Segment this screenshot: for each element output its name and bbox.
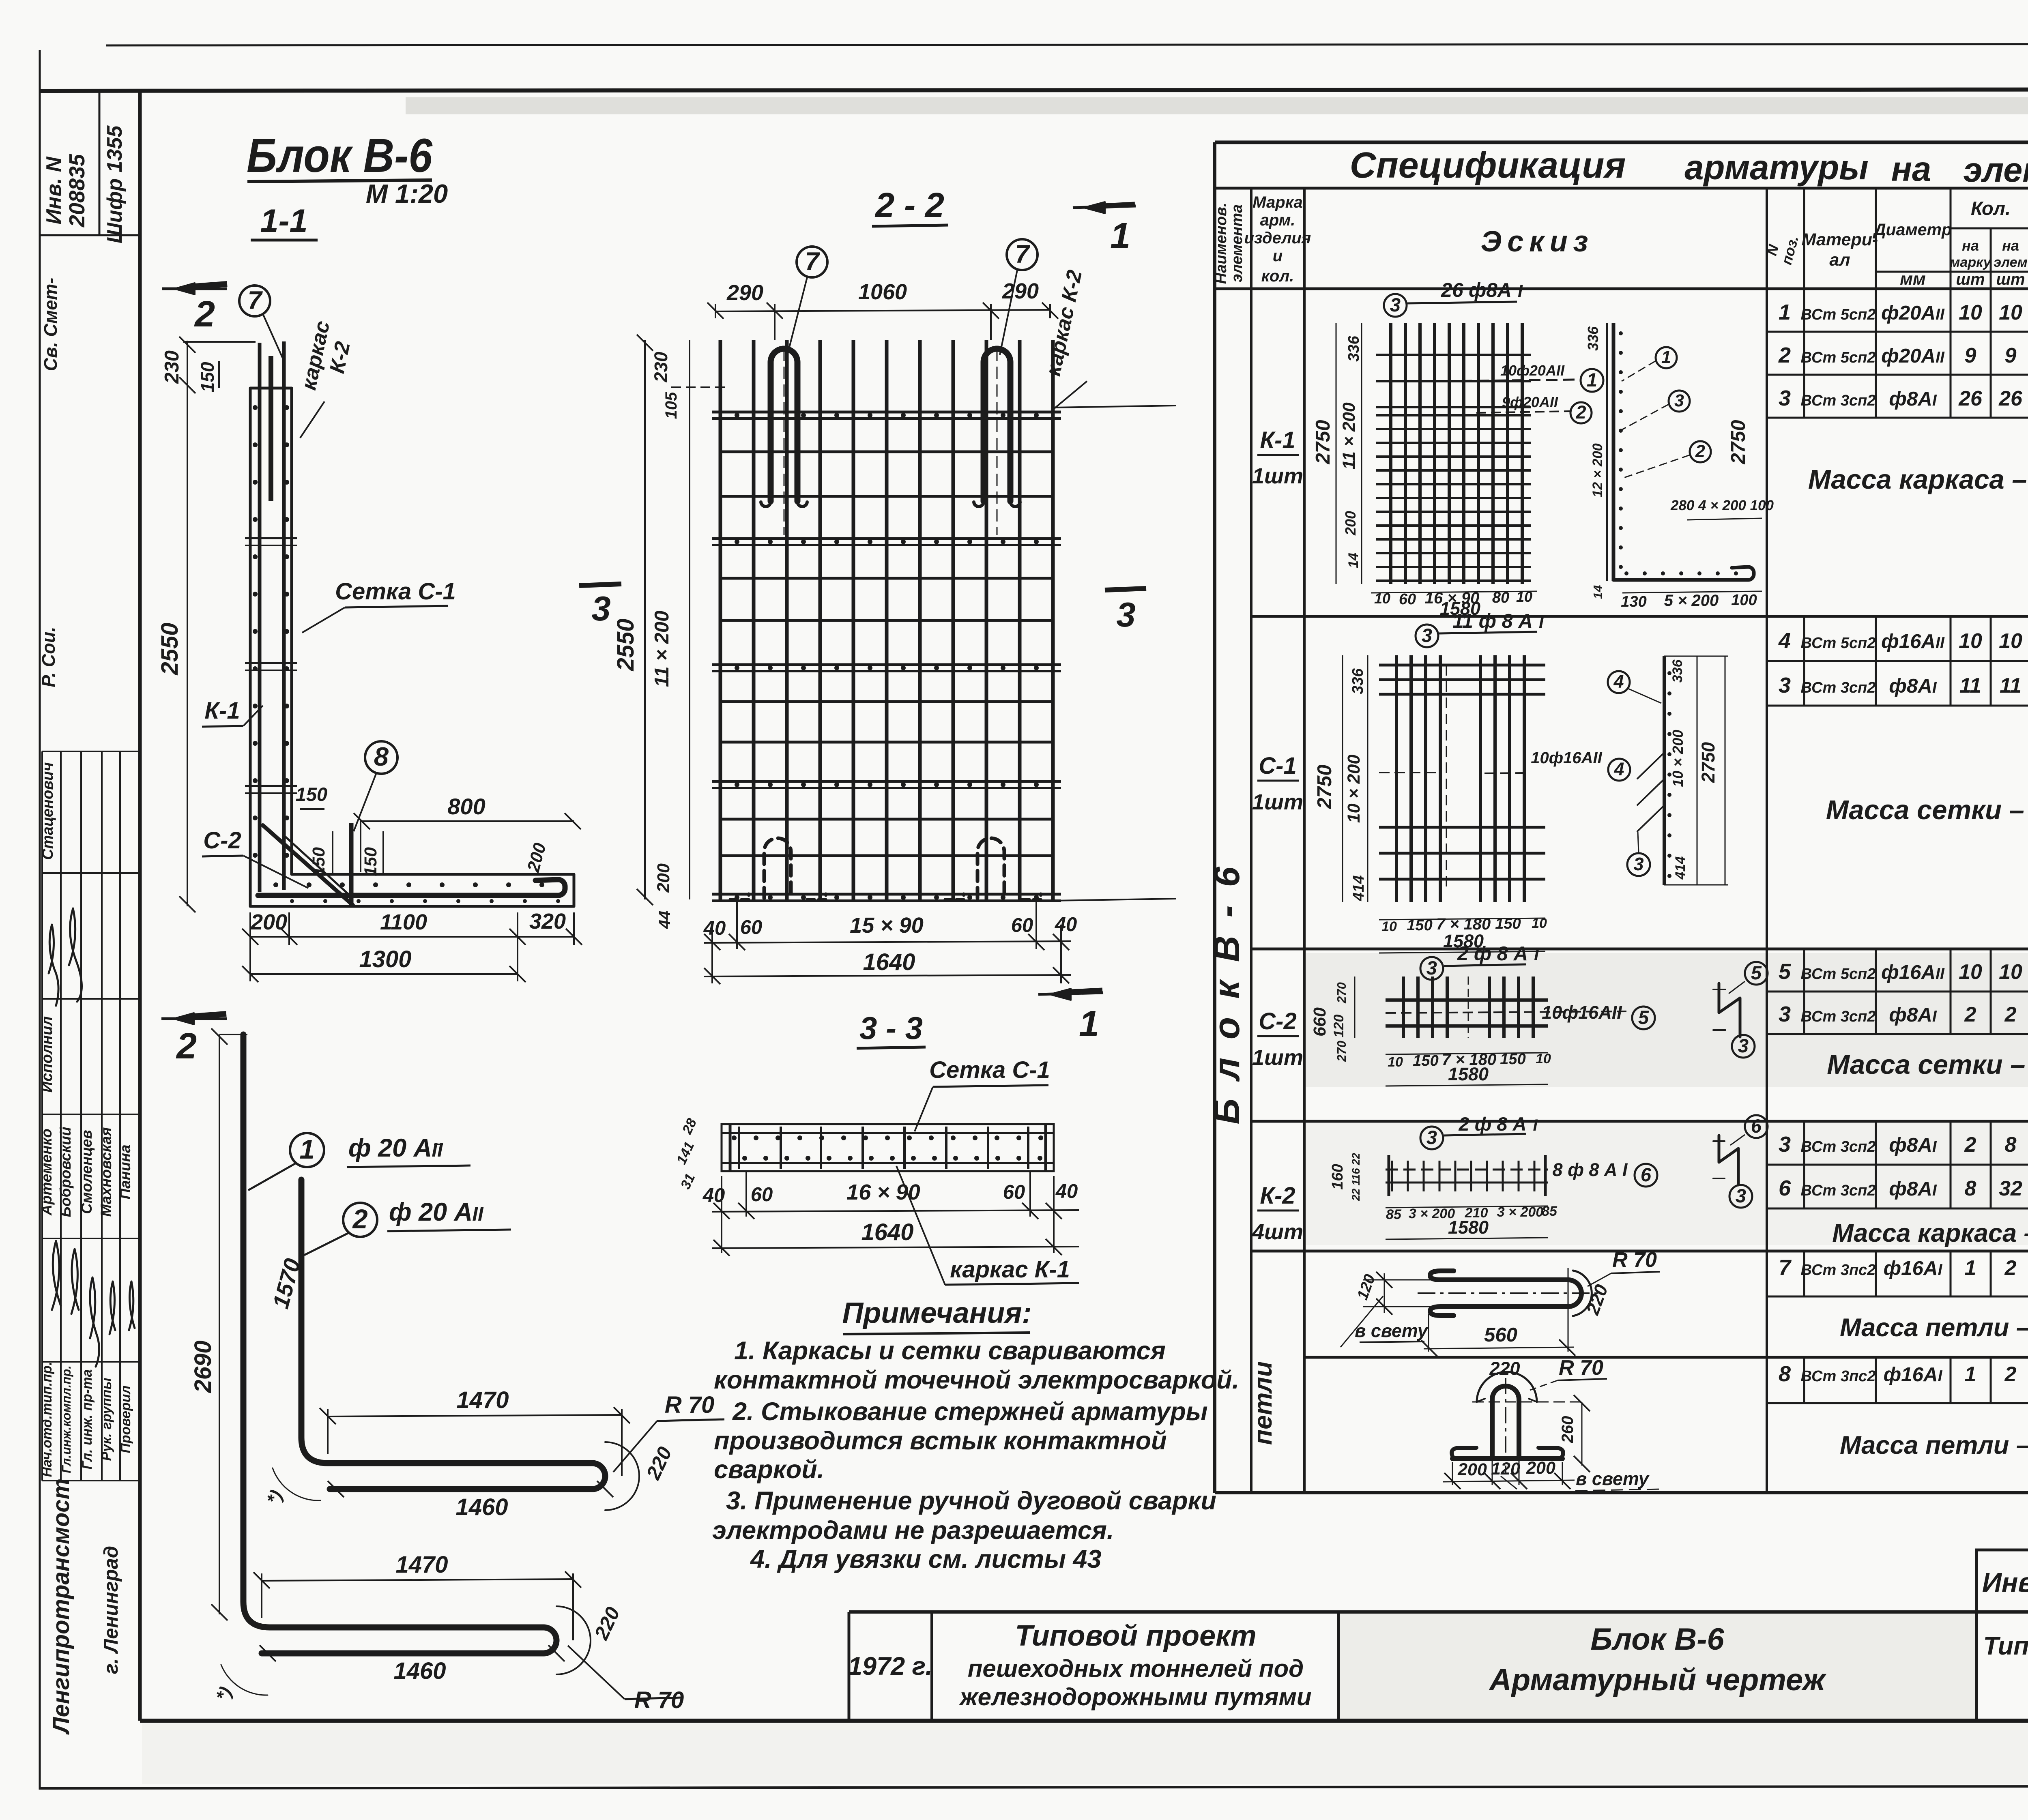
svg-text:1470: 1470 <box>456 1387 509 1413</box>
svg-text:290: 290 <box>726 281 763 305</box>
svg-text:150: 150 <box>1500 1051 1525 1068</box>
dim 1460 (bar2) <box>328 1481 344 1497</box>
sketch C-1 mesh <box>1395 655 1398 902</box>
svg-text:10: 10 <box>1532 916 1547 931</box>
svg-text:5: 5 <box>1751 962 1762 983</box>
svg-text:Махновская: Махновская <box>98 1127 114 1217</box>
svg-text:Спецификация: Спецификация <box>1350 145 1626 186</box>
svg-text:Масса сетки – 11,7 кг: Масса сетки – 11,7 кг <box>1827 1050 2028 1080</box>
svg-text:изделия: изделия <box>1244 229 1311 247</box>
svg-text:10ф16АII: 10ф16АII <box>1531 749 1602 767</box>
svg-text:Арматурный чертеж: Арматурный чертеж <box>1489 1663 1827 1697</box>
svg-text:1300: 1300 <box>359 946 411 972</box>
svg-text:150: 150 <box>361 847 380 876</box>
svg-text:контактной точечной электрос: контактной точечной электросваркой. <box>714 1366 1239 1394</box>
C-1 data rows grid <box>1767 660 2028 662</box>
svg-text:ВСт 5сп2: ВСт 5сп2 <box>1801 635 1876 652</box>
svg-text:11 × 200: 11 × 200 <box>651 611 673 687</box>
stamp box Inv N 208835 <box>40 234 140 236</box>
footing bottom bar with hook <box>258 880 565 895</box>
svg-text:40: 40 <box>1055 914 1077 936</box>
dim 1470 (bar1) <box>261 1573 262 1618</box>
svg-text:I: I <box>1534 945 1539 964</box>
title block outline <box>849 1610 2028 1614</box>
svg-text:3: 3 <box>1779 1002 1791 1026</box>
svg-text:Блок В-6: Блок В-6 <box>247 129 433 182</box>
svg-text:ф 20 А: ф 20 А <box>389 1198 473 1226</box>
inv number box <box>1976 1550 2028 1612</box>
svg-text:3: 3 <box>1422 625 1432 646</box>
svg-text:С-2: С-2 <box>1259 1008 1296 1034</box>
svg-text:40: 40 <box>703 917 726 939</box>
svg-text:6: 6 <box>1779 1176 1791 1200</box>
svg-text:электродами не разрешается.: электродами не разрешается. <box>712 1516 1114 1545</box>
svg-text:I: I <box>1539 612 1544 632</box>
svg-text:Шифр 1355: Шифр 1355 <box>103 125 127 244</box>
svg-text:ф16АII: ф16АII <box>1881 630 1945 652</box>
svg-text:3: 3 <box>1390 294 1401 315</box>
svg-text:2: 2 <box>194 294 215 335</box>
circled 8 (section 1-1) <box>365 741 397 774</box>
section mark 1 (top right) <box>1073 206 1136 208</box>
svg-text:5 × 200: 5 × 200 <box>1664 592 1719 610</box>
svg-text:2: 2 <box>1778 343 1791 367</box>
svg-text:8: 8 <box>2005 1133 2017 1157</box>
svg-text:ВСт 5сп2: ВСт 5сп2 <box>1801 306 1876 323</box>
bottom dim chain (2-2) <box>711 925 713 949</box>
svg-text:14: 14 <box>1591 585 1605 599</box>
svg-text:К-1: К-1 <box>1260 427 1295 453</box>
svg-text:1460: 1460 <box>455 1494 508 1520</box>
K-2 data rows grid <box>1767 1164 2028 1166</box>
svg-text:II: II <box>432 1139 443 1161</box>
section mark 1 (bottom, near 3-3) <box>1038 993 1103 994</box>
outer thin border top <box>106 44 2028 45</box>
svg-text:8: 8 <box>374 742 389 771</box>
svg-text:1580: 1580 <box>1448 1064 1489 1084</box>
svg-text:10: 10 <box>1959 301 1982 324</box>
svg-text:270: 270 <box>1334 1041 1349 1062</box>
svg-text:Панина: Панина <box>117 1144 133 1199</box>
svg-text:1580: 1580 <box>1448 1217 1489 1238</box>
svg-text:3 × 200: 3 × 200 <box>1497 1204 1543 1220</box>
svg-text:I: I <box>1518 281 1523 301</box>
circled 7 labels (2-2) <box>797 247 827 277</box>
svg-text:5: 5 <box>1638 1007 1649 1028</box>
svg-text:7: 7 <box>1015 240 1030 268</box>
svg-text:60: 60 <box>751 1184 773 1206</box>
svg-text:100: 100 <box>1731 592 1757 609</box>
svg-text:660: 660 <box>1310 1007 1330 1037</box>
svg-text:ф8АI: ф8АI <box>1889 1134 1937 1156</box>
svg-text:каркас К-1: каркас К-1 <box>950 1256 1070 1283</box>
K-1 sketch circled 2 + 9f20AII <box>1476 411 1570 413</box>
svg-text:1640: 1640 <box>861 1219 913 1245</box>
svg-text:элемент: элемент <box>1964 151 2028 189</box>
svg-text:ВСт 3сп2: ВСт 3сп2 <box>1801 1182 1876 1199</box>
signature scribbles <box>49 925 58 1006</box>
svg-text:10 × 200: 10 × 200 <box>1344 755 1364 823</box>
left dims (2-2) <box>689 340 690 899</box>
svg-text:80: 80 <box>1492 589 1509 606</box>
K-2 circled 3 + 2f8AI <box>1420 1127 1443 1149</box>
spec table outer grid <box>1215 141 2028 144</box>
svg-text:4: 4 <box>1613 759 1624 779</box>
loop2 260 dim <box>1581 1402 1583 1466</box>
svg-text:К-1: К-1 <box>204 698 240 724</box>
loop row 7 grid <box>1767 1296 2028 1298</box>
signature table grid <box>41 751 43 1481</box>
svg-text:1470: 1470 <box>395 1552 448 1578</box>
svg-text:336: 336 <box>1345 335 1362 361</box>
svg-text:К-2: К-2 <box>1260 1183 1295 1209</box>
svg-text:9: 9 <box>2005 344 2017 367</box>
svg-text:Стаценович: Стаценович <box>39 762 56 860</box>
C-2 Z-bar pictogram <box>1719 983 1740 1037</box>
top dim chain 290/1060/290 (2-2) <box>715 304 716 318</box>
svg-text:7: 7 <box>247 286 263 315</box>
svg-text:150: 150 <box>1413 1052 1438 1069</box>
svg-text:2: 2 <box>2004 1003 2017 1026</box>
svg-text:150: 150 <box>1495 915 1521 932</box>
R70 + 220 (bar1) <box>556 1606 591 1674</box>
svg-text:Сетка С-1: Сетка С-1 <box>929 1057 1050 1083</box>
svg-text:1: 1 <box>1587 369 1597 391</box>
svg-text:3: 3 <box>1779 673 1791 698</box>
svg-text:ВСт 3сп2: ВСт 3сп2 <box>1801 1008 1876 1025</box>
svg-text:2750: 2750 <box>1698 742 1719 783</box>
svg-text:на: на <box>1962 237 1979 254</box>
svg-text:Артеменко: Артеменко <box>38 1129 55 1216</box>
svg-text:6: 6 <box>1641 1164 1652 1185</box>
svg-text:ф8АI: ф8АI <box>1889 388 1937 410</box>
svg-text:Бобровский: Бобровский <box>57 1127 74 1217</box>
svg-text:2: 2 <box>2004 1363 2017 1386</box>
svg-text:5: 5 <box>1779 959 1791 984</box>
section mark 3 right (2-2) <box>1105 588 1146 590</box>
C-2 data rows grid <box>1767 991 2028 993</box>
mesh C-2 diagonal bar <box>263 825 353 905</box>
svg-text:2: 2 <box>1575 402 1586 423</box>
K-1 data rows grid <box>1767 331 2028 333</box>
svg-text:Типовой проект: Типовой проект <box>1983 1632 2028 1660</box>
loop2 R70 outer arc <box>1477 1372 1537 1402</box>
K-2 frame bars protruding (section 1-1) <box>258 343 262 892</box>
dim 150 (1-1 top) <box>218 361 220 388</box>
C-1 left dims <box>1342 655 1343 902</box>
svg-text:марку: марку <box>1950 255 1991 270</box>
svg-text:26: 26 <box>1998 387 2023 410</box>
footing rebar dots <box>273 882 278 887</box>
svg-text:ВСт 3пс2: ВСт 3пс2 <box>1801 1262 1876 1279</box>
scan gray washes <box>1306 953 2028 1087</box>
svg-text:105: 105 <box>662 392 680 419</box>
svg-text:Гл. инж. пр-та: Гл. инж. пр-та <box>79 1369 95 1470</box>
svg-text:10: 10 <box>1959 629 1982 653</box>
svg-text:10ф16АII: 10ф16АII <box>1542 1002 1622 1023</box>
strip outline 3-3 <box>722 1124 1054 1171</box>
K-1 sketch circled 3 + 26 f8AI <box>1384 294 1407 317</box>
section mark 2 bottom <box>161 1017 227 1020</box>
C-1 circled 3 + 11f8AI <box>1416 625 1438 647</box>
K-1 sketch bottom dims <box>1371 591 1537 593</box>
svg-text:26 ф8А: 26 ф8А <box>1441 279 1512 301</box>
svg-text:2: 2 <box>176 1026 197 1067</box>
loop1 560 dim <box>1428 1314 1429 1352</box>
svg-text:Масса сетки – 50,4 кг: Масса сетки – 50,4 кг <box>1826 795 2028 825</box>
svg-text:10: 10 <box>1999 301 2022 324</box>
svg-text:9ф20АII: 9ф20АII <box>1502 394 1558 410</box>
svg-text:Масса каркаса – 1,8 кг: Масса каркаса – 1,8 кг <box>1832 1219 2028 1247</box>
svg-text:10ф20АII: 10ф20АII <box>1500 362 1565 379</box>
main frame bottom line <box>140 1719 2028 1723</box>
svg-text:Эскиз: Эскиз <box>1480 225 1594 258</box>
svg-text:ВСт 3сп2: ВСт 3сп2 <box>1801 679 1876 696</box>
svg-text:пешеходных тоннелей под: пешеходных тоннелей под <box>968 1655 1304 1682</box>
sketch K-1 mesh front view <box>1389 323 1392 584</box>
C-2 bottom dims <box>1386 1053 1548 1054</box>
svg-text:Инв. N: Инв. N <box>42 156 66 224</box>
bent bar position 1 <box>243 1034 556 1653</box>
svg-text:10: 10 <box>1536 1051 1551 1067</box>
bent bar position 2 <box>301 1180 605 1489</box>
svg-text:3: 3 <box>1779 1132 1791 1157</box>
svg-text:280 4 × 200 100: 280 4 × 200 100 <box>1670 498 1774 513</box>
hairpin bars pos.7 (2-2) <box>771 349 797 501</box>
svg-text:Блок В-6: Блок В-6 <box>1590 1622 1724 1657</box>
svg-text:336: 336 <box>1349 668 1366 694</box>
svg-text:железнодорожными путями: железнодорожными путями <box>958 1683 1311 1711</box>
header internal verticals <box>1250 188 1252 1493</box>
svg-text:270: 270 <box>1334 982 1349 1004</box>
svg-text:ВСт 3сп2: ВСт 3сп2 <box>1801 392 1876 409</box>
bottom dashed hairpins (2-2) <box>764 838 791 898</box>
svg-text:2. Стыкование стержней арма: 2. Стыкование стержней арматуры <box>732 1397 1208 1426</box>
svg-text:2: 2 <box>1964 1003 1976 1026</box>
svg-text:2750: 2750 <box>1314 764 1336 809</box>
svg-text:150: 150 <box>197 362 218 392</box>
svg-text:11 ф 8 А: 11 ф 8 А <box>1452 610 1533 632</box>
svg-text:Диаметр: Диаметр <box>1873 220 1952 239</box>
svg-text:10: 10 <box>1374 590 1390 607</box>
svg-text:200: 200 <box>1457 1460 1487 1479</box>
svg-text:6: 6 <box>1751 1115 1762 1137</box>
svg-text:Масса петли – 2,1 кг: Масса петли – 2,1 кг <box>1840 1431 2028 1459</box>
svg-text:ф16АII: ф16АII <box>1881 961 1945 983</box>
svg-text:200: 200 <box>1342 511 1359 536</box>
svg-text:208835: 208835 <box>65 154 89 227</box>
svg-text:220: 220 <box>1489 1358 1520 1379</box>
outer thin border left <box>39 50 41 1790</box>
svg-text:336: 336 <box>1670 659 1685 683</box>
svg-text:260: 260 <box>1559 1416 1577 1444</box>
circled 2 + label <box>343 1203 377 1237</box>
header column splits <box>1803 188 1805 289</box>
loop2 bottom dims <box>1452 1462 1453 1485</box>
svg-text:ф20АII: ф20АII <box>1881 302 1945 324</box>
svg-text:60: 60 <box>1003 1181 1025 1203</box>
svg-text:мм: мм <box>1900 269 1926 289</box>
svg-text:1972 г.: 1972 г. <box>848 1652 932 1680</box>
svg-text:Кол.: Кол. <box>1971 197 2011 219</box>
strip wires 3-3 <box>722 1132 1054 1134</box>
C-1 bottom dims <box>1379 918 1545 920</box>
K-1 sketch left dims <box>1336 323 1337 584</box>
svg-text:14: 14 <box>1346 553 1361 568</box>
svg-text:3. Применение ручной дугово: 3. Применение ручной дуговой сварки <box>726 1487 1216 1515</box>
svg-text:М 1:20: М 1:20 <box>366 179 448 208</box>
svg-text:ВСт 5сп2: ВСт 5сп2 <box>1801 349 1876 366</box>
svg-text:150: 150 <box>309 847 329 876</box>
svg-text:арм.: арм. <box>1260 211 1295 229</box>
svg-text:2: 2 <box>1695 442 1705 461</box>
svg-text:800: 800 <box>447 794 485 819</box>
svg-text:ал: ал <box>1829 250 1850 270</box>
svg-text:336: 336 <box>1585 326 1601 351</box>
sketch C-2 mesh <box>1402 977 1405 1038</box>
svg-text:кол.: кол. <box>1261 267 1294 285</box>
dim 1470 (bar2) <box>327 1409 329 1454</box>
loop1 120 dim <box>1363 1279 1432 1281</box>
dim 2690 <box>219 1034 220 1614</box>
circled 1 + label <box>290 1133 324 1167</box>
section divider lines <box>1251 615 2028 618</box>
svg-text:С-2: С-2 <box>203 827 241 854</box>
svg-text:3: 3 <box>1674 391 1684 410</box>
svg-text:3: 3 <box>1426 957 1437 979</box>
svg-text:Нач.отд.тип.пр.: Нач.отд.тип.пр. <box>39 1362 55 1477</box>
svg-text:петли: петли <box>1249 1361 1277 1445</box>
svg-text:Проверил: Проверил <box>118 1385 133 1453</box>
svg-text:22 116 22: 22 116 22 <box>1350 1153 1362 1201</box>
svg-text:7: 7 <box>805 247 820 276</box>
svg-text:1: 1 <box>1965 1256 1976 1280</box>
svg-text:Масса петли – 2,4 кг: Масса петли – 2,4 кг <box>1840 1313 2028 1342</box>
svg-text:1. Каркасы и сетки сварива: 1. Каркасы и сетки свариваются <box>734 1337 1166 1365</box>
svg-text:Инв. № 942/3-47: Инв. № 942/3-47 <box>1982 1567 2028 1598</box>
svg-text:8: 8 <box>1779 1362 1791 1386</box>
svg-text:1: 1 <box>1661 348 1671 367</box>
svg-text:32: 32 <box>1999 1177 2022 1200</box>
svg-text:3: 3 <box>1426 1127 1437 1148</box>
section mark 2 top <box>162 288 227 290</box>
svg-text:414: 414 <box>1673 856 1688 880</box>
svg-text:ф8АI: ф8АI <box>1889 675 1937 697</box>
C-2 circled 3 + 2f8AI <box>1420 957 1443 980</box>
mesh 2-2 horizontal wires <box>720 451 1053 453</box>
svg-text:сваркой.: сваркой. <box>714 1455 824 1484</box>
svg-text:3: 3 <box>1779 386 1791 410</box>
svg-text:1640: 1640 <box>863 949 915 975</box>
svg-text:16 × 90: 16 × 90 <box>846 1180 920 1204</box>
svg-text:ВСт 3сп2: ВСт 3сп2 <box>1801 1138 1876 1155</box>
svg-text:ф16АI: ф16АI <box>1884 1363 1943 1386</box>
svg-text:Б л о к В - 6: Б л о к В - 6 <box>1207 863 1247 1124</box>
bottom dim chain (1-1) <box>249 912 251 945</box>
svg-text:4: 4 <box>1613 671 1624 692</box>
sketch C-1 side strip <box>1663 656 1666 885</box>
svg-text:ВСт 5сп2: ВСт 5сп2 <box>1801 966 1876 983</box>
svg-text:10: 10 <box>1999 629 2022 653</box>
svg-text:2550: 2550 <box>157 622 183 675</box>
svg-text:120: 120 <box>1491 1459 1520 1479</box>
svg-text:элем: элем <box>1994 255 2028 270</box>
svg-text:Исполнил: Исполнил <box>39 1016 56 1092</box>
svg-text:150: 150 <box>1407 917 1432 934</box>
loop sketch type 1 (position 7) <box>1430 1271 1581 1316</box>
svg-text:в свету: в свету <box>1355 1320 1429 1341</box>
strip stirrups 3-3 <box>738 1127 740 1169</box>
dim 2550 (1-1) <box>187 388 188 906</box>
svg-text:1шт: 1шт <box>1252 790 1303 814</box>
section mark 3 (left) <box>579 584 621 586</box>
svg-text:г. Ленинград: г. Ленинград <box>100 1546 122 1674</box>
svg-text:60: 60 <box>1399 591 1416 608</box>
svg-text:в свету: в свету <box>1576 1468 1650 1489</box>
circled 7 (section 1-1) <box>239 285 270 316</box>
mesh C-1 horizontal wires in wall <box>245 537 297 539</box>
svg-text:1060: 1060 <box>858 280 907 304</box>
svg-text:1: 1 <box>1779 300 1791 324</box>
svg-text:2 ф 8 А: 2 ф 8 А <box>1457 943 1528 965</box>
svg-text:R 70: R 70 <box>665 1392 715 1418</box>
svg-text:10: 10 <box>1999 960 2022 984</box>
svg-text:Марка: Марка <box>1252 193 1303 211</box>
svg-text:10: 10 <box>1381 919 1397 934</box>
svg-text:10: 10 <box>1388 1054 1403 1070</box>
svg-text:60: 60 <box>740 916 763 938</box>
svg-text:2: 2 <box>352 1204 367 1234</box>
bottom dashed hooks (2-2) <box>730 894 749 899</box>
svg-text:ф8АI: ф8АI <box>1889 1004 1937 1026</box>
svg-text:414: 414 <box>1350 875 1367 901</box>
svg-text:120: 120 <box>1331 1015 1347 1038</box>
svg-text:R 70: R 70 <box>1559 1356 1603 1380</box>
svg-text:150: 150 <box>296 783 327 805</box>
L-profile circled refs <box>1656 347 1677 368</box>
svg-text:1: 1 <box>299 1134 314 1165</box>
svg-text:Матери-: Матери- <box>1802 230 1878 249</box>
dim 1460 (bar1) <box>260 1645 276 1661</box>
svg-text:560: 560 <box>1484 1324 1517 1346</box>
svg-text:2690: 2690 <box>190 1340 216 1393</box>
svg-text:2: 2 <box>2004 1256 2017 1280</box>
dim 230 (1-1) <box>187 341 188 388</box>
svg-text:1шт: 1шт <box>1252 1045 1303 1070</box>
bottom dim chain 3-3 <box>721 1176 722 1217</box>
svg-text:на: на <box>1891 150 1931 189</box>
svg-text:2 ф 8 А: 2 ф 8 А <box>1459 1113 1527 1135</box>
svg-text:II: II <box>472 1203 484 1225</box>
svg-text:элемента: элемента <box>1229 204 1246 282</box>
svg-text:230: 230 <box>651 352 671 382</box>
bar pos.8 vertical <box>349 823 354 906</box>
C-1 hatch mark <box>1637 753 1663 831</box>
svg-text:ф16АI: ф16АI <box>1884 1257 1943 1279</box>
svg-text:шт: шт <box>1996 270 2025 288</box>
C-1 side strip dims <box>1697 656 1698 885</box>
svg-text:и: и <box>1273 247 1283 265</box>
main frame left vertical <box>138 90 142 1721</box>
svg-text:11 × 200: 11 × 200 <box>1339 402 1359 469</box>
svg-text:2550: 2550 <box>612 618 639 671</box>
svg-text:ф8АI: ф8АI <box>1889 1178 1937 1200</box>
loop1 R70 arc <box>1573 1271 1592 1316</box>
svg-text:3: 3 <box>1736 1185 1746 1206</box>
svg-text:2: 2 <box>1964 1133 1976 1157</box>
main frame top thick line <box>40 89 2028 91</box>
svg-text:R 70: R 70 <box>1612 1248 1657 1272</box>
